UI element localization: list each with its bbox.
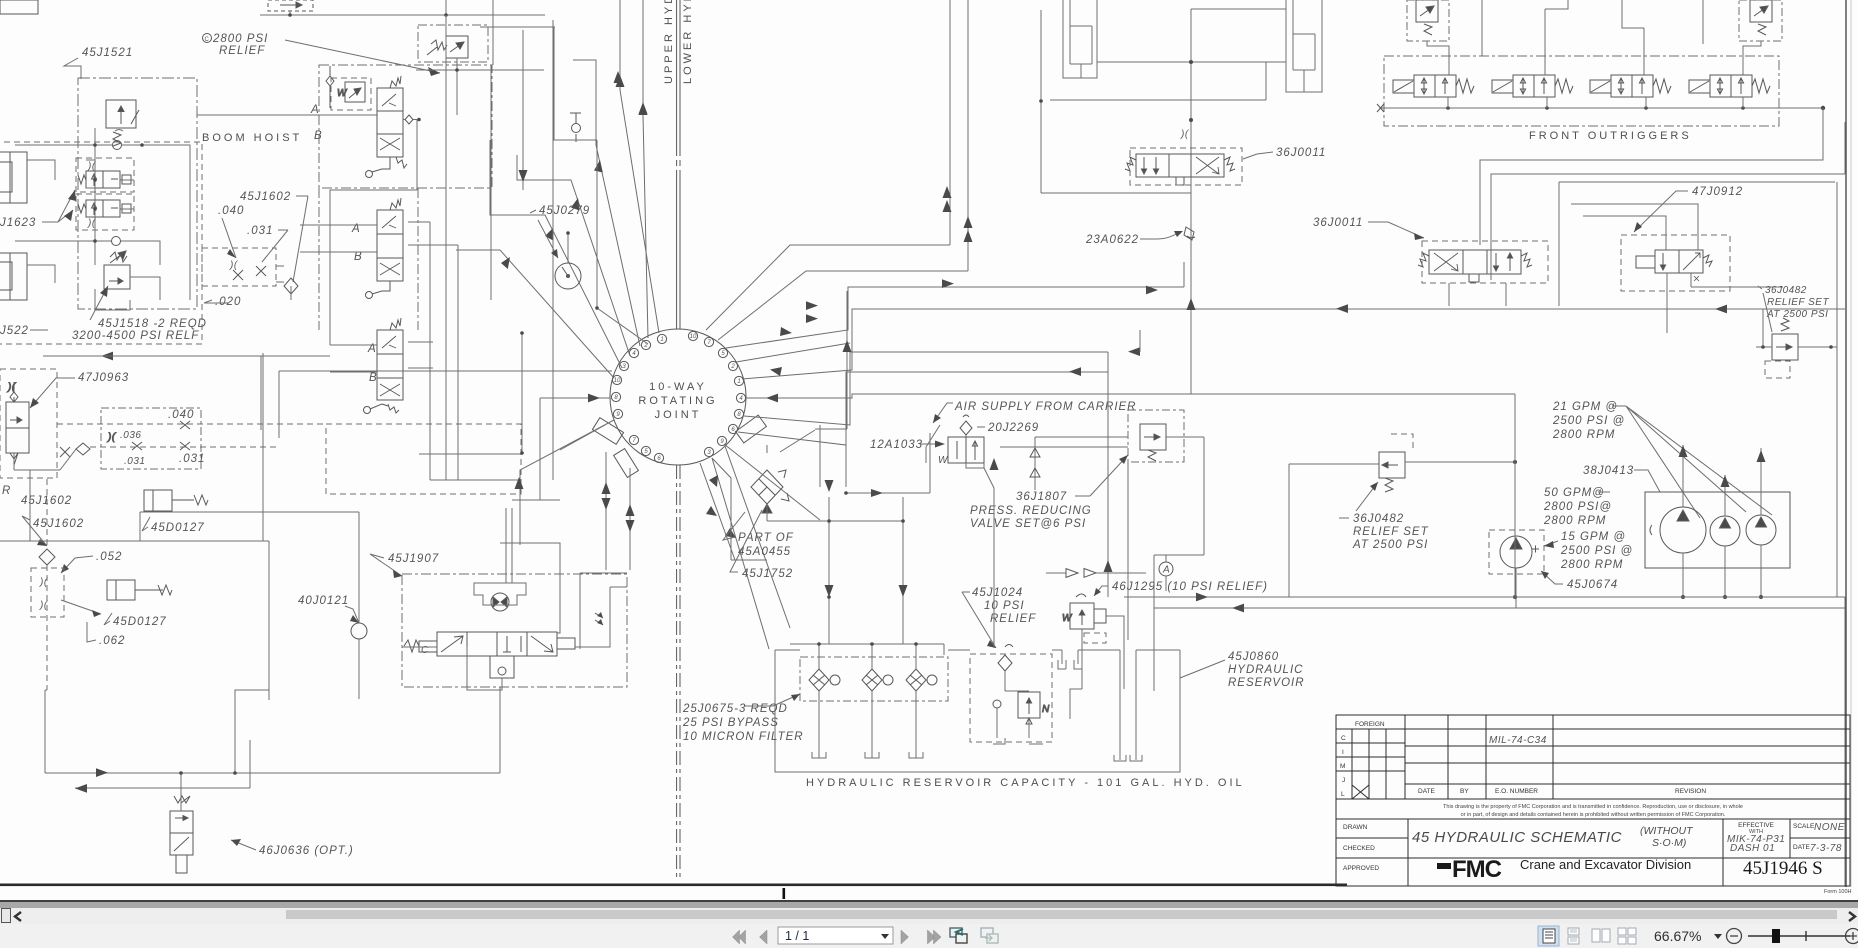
enclosure box: [1407, 0, 1449, 41]
svg-text:W: W: [1062, 613, 1073, 624]
pumps group: [1489, 401, 1790, 608]
wire: [700, 463, 735, 560]
wire: [676, 150, 678, 176]
enclosure box: [176, 855, 187, 873]
wire: [86, 160, 134, 209]
wire: [10, 382, 18, 402]
filter diamond left: [39, 549, 55, 565]
wire: [1559, 182, 1835, 306]
enclosure box: [419, 641, 437, 652]
wire: [1449, 283, 1506, 306]
routing nested lines: [1449, 108, 1845, 333]
diamond: [76, 443, 90, 455]
valve drop lines: [1448, 97, 1743, 108]
wires relief center: [1289, 462, 1515, 597]
wires left bottom: [0, 353, 269, 700]
wire: [1232, 604, 1244, 613]
leader 45J1518: [90, 286, 108, 320]
svg-text:N: N: [1042, 704, 1050, 715]
filter 3: [906, 669, 937, 691]
valve 46J0636: [170, 796, 193, 873]
wire: [573, 60, 640, 346]
wire: [45, 689, 47, 691]
svg-text:4: 4: [632, 351, 636, 357]
wire: [45, 690, 500, 773]
svg-text:B: B: [354, 251, 363, 263]
diamond right of valve: [405, 115, 413, 124]
wire: [75, 784, 87, 793]
svg-text:5: 5: [721, 351, 725, 357]
right fan arrowheads: [706, 279, 1348, 538]
strainer diamond: [998, 645, 1013, 672]
filter diamond 45J1602: [284, 278, 298, 294]
svg-text:12A1033: 12A1033: [870, 439, 923, 451]
wire: [997, 671, 1029, 738]
svg-text:.040: .040: [218, 205, 244, 217]
wire: [1176, 177, 1184, 185]
wire: [10, 453, 18, 465]
dashed box pilot check: [331, 78, 371, 110]
enclosure box: [1429, 250, 1463, 274]
svg-text:45J1752: 45J1752: [742, 568, 793, 580]
wire: [1127, 462, 1129, 640]
wire: [990, 458, 999, 470]
wire: [30, 329, 48, 331]
wire: [1050, 310, 1062, 319]
gauge group: [530, 27, 648, 344]
wire: [1336, 837, 1408, 839]
svg-text:L: L: [1341, 791, 1345, 798]
flow arrows / junction dots: [1189, 60, 1193, 122]
wire: [503, 636, 521, 652]
rim tabs: [592, 415, 766, 477]
wire: [467, 647, 502, 690]
wire: [744, 352, 1108, 425]
wire: [1407, 819, 1409, 886]
wire: [61, 556, 93, 573]
svg-text:2800 RPM: 2800 RPM: [1543, 515, 1606, 527]
enclosure box: [1136, 154, 1169, 177]
svg-text:45J0860: 45J0860: [1228, 651, 1279, 663]
wire: [1721, 475, 1730, 487]
wires 36J1807: [1000, 437, 1204, 591]
wire: [380, 263, 400, 275]
right end box: [557, 638, 575, 649]
svg-text:PART OF: PART OF: [738, 532, 794, 544]
reservoir internal pipes: [993, 650, 1142, 761]
svg-text:36J0482: 36J0482: [1353, 513, 1404, 525]
enclosure box: [1437, 863, 1451, 869]
svg-text:RELIEF SET: RELIEF SET: [1353, 526, 1429, 538]
svg-text:5: 5: [644, 449, 648, 455]
wire: [43, 355, 261, 357]
svg-text:MIL-74-C34: MIL-74-C34: [1489, 735, 1547, 746]
svg-text:8: 8: [737, 412, 741, 418]
wire: [1069, 367, 1081, 376]
svg-text:A: A: [1162, 565, 1170, 576]
wire: [404, 640, 419, 652]
flow arrows / junction dots: [1679, 445, 1766, 487]
wire: [262, 353, 264, 541]
wire: [843, 340, 852, 352]
swing cylinder left frame: [1041, 10, 1191, 193]
svg-text:W: W: [938, 455, 949, 466]
svg-text:3: 3: [622, 364, 626, 370]
leaders 45J1623: [42, 190, 75, 222]
svg-text:10 MICRON FILTER: 10 MICRON FILTER: [683, 731, 804, 743]
svg-text:10 PSI: 10 PSI: [984, 600, 1025, 612]
right sub box: [580, 573, 627, 649]
dash-dot box 45J1907: [402, 574, 627, 687]
riser wires: [1427, 0, 1761, 75]
wire: [1035, 436, 1128, 438]
wire: [441, 636, 463, 652]
svg-text:AT 2500 PSI: AT 2500 PSI: [1766, 309, 1828, 320]
cb1 dashed box: [76, 158, 134, 192]
valve 36J1807: [1140, 424, 1166, 461]
svg-text:JOINT: JOINT: [655, 409, 702, 421]
big dashed box: [326, 424, 521, 494]
wire: [130, 277, 160, 300]
svg-text:10: 10: [690, 334, 697, 340]
svg-text:40J0121: 40J0121: [298, 595, 349, 607]
svg-text:15 GPM @: 15 GPM @: [1561, 531, 1626, 543]
svg-text:47J0963: 47J0963: [78, 372, 129, 384]
A2/B2 lines: [300, 225, 377, 252]
wire: [1165, 555, 1167, 591]
svg-text:or in part, of design and deta: or in part, of design and details contai…: [1461, 812, 1726, 818]
port3 drop to reservoir: [712, 458, 767, 560]
j1907 group: [370, 500, 627, 690]
flow arrows / junction dots: [1196, 593, 1244, 613]
svg-text:45A0455: 45A0455: [738, 546, 791, 558]
wire: [778, 470, 789, 501]
wire: [610, 586, 627, 588]
plug T symbol: [570, 113, 581, 142]
wire: [530, 210, 536, 213]
wire: [1541, 571, 1563, 584]
leader to pilot relief: [285, 40, 440, 73]
wire: [762, 504, 772, 513]
wire: [231, 840, 256, 850]
up arrow in box: [515, 477, 524, 489]
wire: [1084, 633, 1106, 643]
wire: [95, 289, 130, 310]
wire: [396, 157, 407, 168]
wire: [390, 198, 401, 210]
dash-dot box 36J1807: [1128, 410, 1184, 462]
wire: [1622, 0, 1644, 75]
outrigger valve 3: [1590, 75, 1671, 97]
svg-text:FOREIGN: FOREIGN: [1355, 721, 1385, 728]
svg-text:This drawing is the property o: This drawing is the property of FMC Corp…: [1443, 804, 1743, 810]
wire: [1124, 596, 1845, 598]
svg-text:B: B: [314, 130, 323, 142]
wire: [616, 75, 625, 87]
svg-text:M: M: [1340, 763, 1345, 770]
wires center: [767, 425, 1166, 719]
motor circle: [491, 593, 509, 611]
dashed box 36J0011 #1: [1130, 148, 1242, 185]
dashed box orifice pair: [31, 568, 64, 617]
air line down: [966, 435, 994, 488]
node: [203, 34, 212, 43]
svg-text:3200-4500 PSI RELF: 3200-4500 PSI RELF: [72, 330, 199, 342]
fan group: [456, 0, 1845, 649]
svg-text:.020: .020: [215, 296, 241, 308]
flow arrows / junction dots: [1681, 595, 1763, 599]
wire: [639, 103, 648, 115]
wire: [1377, 104, 1384, 112]
extra bus arrows: [1050, 286, 1158, 319]
reservoir outline: [775, 650, 1180, 772]
check circle 2: [112, 237, 121, 246]
wire: [1703, 255, 1712, 267]
svg-text:HYDRAULIC RESERVOIR CAPACITY: HYDRAULIC RESERVOIR CAPACITY - 101 GAL. …: [806, 777, 1245, 789]
wire: [829, 497, 903, 597]
svg-text:RESERVOIR: RESERVOIR: [1228, 677, 1305, 689]
leader: [538, 220, 558, 258]
wires relief top: [1756, 309, 1837, 347]
wire: [382, 336, 396, 348]
wire: [942, 279, 954, 288]
svg-text:6: 6: [731, 427, 735, 433]
wire: [1757, 450, 1766, 462]
wires inside boom box: [15, 128, 190, 310]
boom hoist dash-dot box: [78, 78, 197, 309]
flow arrows / junction dots: [602, 482, 635, 532]
svg-text:23A0622: 23A0622: [1085, 234, 1139, 246]
wire: [517, 155, 630, 356]
valve 47J0963: [6, 382, 29, 465]
wire: [1491, 174, 1845, 280]
svg-text:2800 PSI: 2800 PSI: [212, 33, 268, 45]
wire: [490, 65, 492, 140]
svg-text:45J1602: 45J1602: [240, 191, 291, 203]
wire: [920, 443, 938, 445]
titleblock group: [1336, 715, 1852, 895]
enclosure box: [377, 210, 403, 234]
wire: [1046, 572, 1146, 574]
wire: [380, 384, 400, 396]
wire: [819, 691, 916, 758]
svg-text:1: 1: [660, 337, 663, 343]
vertical trunk: [1514, 394, 1516, 597]
wire: [846, 425, 930, 493]
wire: [408, 342, 433, 368]
wire: [790, 643, 944, 645]
svg-text:.031: .031: [179, 453, 205, 465]
wire: [180, 421, 190, 429]
svg-text:45J1907: 45J1907: [388, 553, 439, 565]
svg-text:45J1946 S: 45J1946 S: [1743, 858, 1823, 879]
wire: [899, 585, 908, 597]
wire: [358, 572, 360, 699]
wire: [993, 738, 1043, 744]
5-section valve: [437, 632, 557, 656]
wire: [825, 585, 834, 597]
wire: [746, 394, 1515, 398]
svg-text:ROTATING: ROTATING: [638, 395, 717, 407]
svg-text:2500 PSI @: 2500 PSI @: [1552, 415, 1625, 427]
component group: [614, 334, 744, 462]
svg-text:7: 7: [632, 438, 636, 444]
svg-text:J522: J522: [0, 325, 29, 337]
enclosure box: [437, 632, 467, 656]
enclosure box: [6, 402, 29, 428]
svg-text:A: A: [310, 104, 320, 116]
manifold line: [1380, 107, 1823, 109]
wire: [557, 573, 560, 633]
svg-text:BOOM HOIST: BOOM HOIST: [202, 132, 302, 144]
svg-text:45D0127: 45D0127: [113, 616, 167, 628]
boomhoist group: [0, 33, 440, 344]
svg-text:Form 100H: Form 100H: [1824, 889, 1852, 895]
leftbottom group: [0, 353, 367, 700]
wire: [588, 394, 600, 403]
wires bottom left: [45, 687, 500, 811]
wire: [639, 102, 648, 114]
node: [366, 171, 373, 178]
wire: [1404, 715, 1406, 799]
valve 36J0011 #2: [1418, 250, 1532, 282]
title block outer box: [1336, 715, 1850, 886]
orifice symbols: [107, 421, 190, 450]
inner wires: [419, 333, 522, 480]
wire: [679, 150, 681, 176]
check ball circle: [113, 141, 122, 150]
wire: [1224, 157, 1235, 171]
counterbalance valve 1: [78, 171, 131, 188]
long line under valves: [279, 371, 612, 438]
diamond stem: [326, 66, 334, 108]
wire: [1336, 304, 1348, 313]
wire: [1545, 0, 1568, 75]
svg-text:45J1024: 45J1024: [972, 587, 1023, 599]
swing cylinder left: [1063, 0, 1097, 78]
wire: [1405, 783, 1850, 785]
wire: [382, 94, 396, 106]
svg-text:I: I: [1342, 749, 1344, 756]
wire: [1683, 253, 1700, 270]
left fan wires into joint: [456, 0, 659, 545]
wire: [933, 403, 953, 423]
wire: [545, 228, 553, 240]
wire: [977, 426, 985, 428]
line y512 to 40J0121: [140, 512, 359, 572]
wire: [15, 144, 112, 146]
orifice cross: [60, 447, 70, 457]
wire: [388, 404, 399, 413]
wire: [706, 506, 717, 516]
svg-text:S·O·M): S·O·M): [1652, 837, 1686, 849]
arrows down: [519, 71, 648, 182]
svg-text:RELIEF: RELIEF: [990, 613, 1036, 625]
wire: [1789, 819, 1791, 858]
valve 2: [366, 198, 404, 299]
valve 46J1295: [1062, 594, 1106, 629]
enclosure link dash-dot: [319, 188, 418, 330]
svg-text:66.67%: 66.67%: [1654, 928, 1701, 944]
motor body lines: [474, 583, 526, 605]
wire: [61, 600, 112, 625]
wire: [1125, 157, 1136, 171]
view mode icons: [1538, 926, 1559, 946]
cylinder link wires: [1050, 9, 1286, 187]
wire: [1243, 152, 1273, 159]
wire: [1515, 568, 1517, 608]
svg-text:DRAWN: DRAWN: [1343, 824, 1368, 831]
svg-text:APPROVED: APPROVED: [1343, 865, 1379, 872]
wire: [456, 250, 614, 378]
svg-text:C: C: [205, 37, 210, 43]
svg-text:B: B: [369, 372, 378, 384]
wire: [180, 442, 190, 450]
wire: [289, 11, 291, 15]
wire: [382, 216, 396, 228]
wire: [1336, 742, 1405, 744]
svg-text:RELIEF SET: RELIEF SET: [1767, 297, 1829, 308]
enclosure box: [614, 449, 639, 478]
wire: [725, 446, 790, 628]
wire: [1485, 715, 1487, 799]
wire: [1765, 361, 1790, 378]
below circle double arrow drops: [606, 452, 630, 570]
cylinder top-left: [0, 152, 27, 203]
enclosure box: [170, 811, 193, 833]
node: [657, 334, 666, 343]
svg-text:AIR SUPPLY FROM CARRIER: AIR SUPPLY FROM CARRIER: [954, 401, 1136, 413]
wire: [1715, 305, 1727, 314]
svg-text:45J1518 -2 REQD: 45J1518 -2 REQD: [98, 318, 207, 330]
svg-text:)(: )(: [7, 382, 17, 393]
flow arrows: [825, 458, 999, 597]
wire: [1405, 762, 1850, 764]
flow arrows / junction dots: [288, 13, 459, 72]
wire: [1434, 253, 1458, 271]
wire: [174, 796, 190, 803]
pilot relief 2800psi: [427, 36, 468, 58]
wires: [233, 266, 266, 280]
circled A node: [1159, 562, 1173, 576]
wire: [1339, 482, 1378, 518]
wire: [1336, 770, 1405, 772]
wire: [1480, 108, 1823, 245]
air valve 12A1033: [948, 437, 984, 463]
svg-text:1: 1: [737, 379, 740, 385]
leader: [30, 378, 75, 408]
wire: [943, 186, 952, 212]
upper/lower hyd divider double line: [676, 0, 678, 150]
bypass valve with N: [993, 692, 1050, 724]
flow arrows / junction dots: [1446, 106, 1825, 110]
node dots: [93, 143, 144, 243]
svg-text:2500 PSI @: 2500 PSI @: [1560, 545, 1633, 557]
wire: [500, 500, 560, 583]
wire: [1139, 330, 1141, 352]
wire: [759, 479, 775, 495]
cylinder 45D0127 lower: [107, 580, 172, 600]
wire: [1336, 728, 1405, 730]
wire: [445, 15, 447, 210]
svg-text:)(: )(: [107, 432, 117, 443]
wire: [602, 482, 611, 494]
wire: [1844, 122, 1846, 174]
enclosure box: [1655, 250, 1679, 273]
svg-text:AT 2500 PSI: AT 2500 PSI: [1352, 539, 1428, 551]
svg-text:2: 2: [730, 364, 735, 370]
enclosure box: [1489, 530, 1544, 574]
